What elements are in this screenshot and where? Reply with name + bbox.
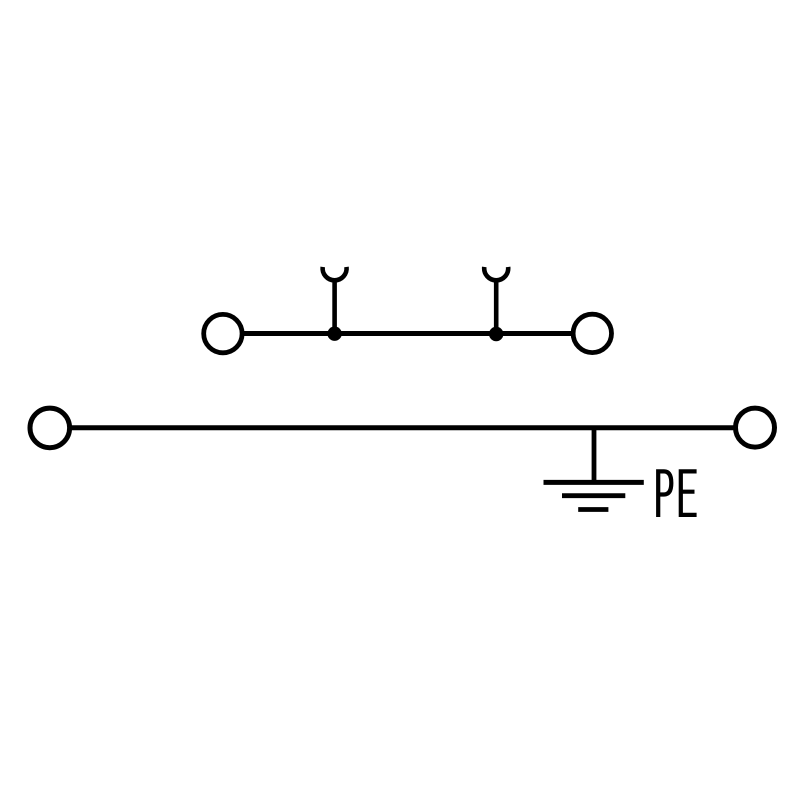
ground bar bottom — [578, 507, 608, 512]
terminal circle X2.1 (bottom-left) — [30, 408, 70, 448]
wire (top level conductor) — [244, 331, 572, 336]
ground bar top — [544, 480, 644, 485]
ground stem wire — [592, 428, 597, 483]
junction node 1 — [327, 327, 341, 341]
terminal circle X2.2 (bottom-right) — [736, 408, 775, 447]
label PE letter E — [681, 471, 697, 515]
terminal circle X1.2 (top-right) — [573, 314, 611, 352]
ground bar middle — [562, 493, 625, 498]
plug contact fork symbol 2 (arc) — [484, 267, 508, 280]
plug contact fork symbol 1 (arc) — [323, 267, 347, 280]
label PE letter P — [658, 471, 671, 517]
plug contact fork symbol 1 (stem wire) — [332, 280, 337, 334]
plug contact fork symbol 2 (stem wire) — [494, 280, 499, 334]
terminal circle X1.1 (top-left) — [204, 314, 242, 352]
wire (bottom PE conductor) — [71, 425, 734, 430]
junction node 2 — [489, 327, 503, 341]
